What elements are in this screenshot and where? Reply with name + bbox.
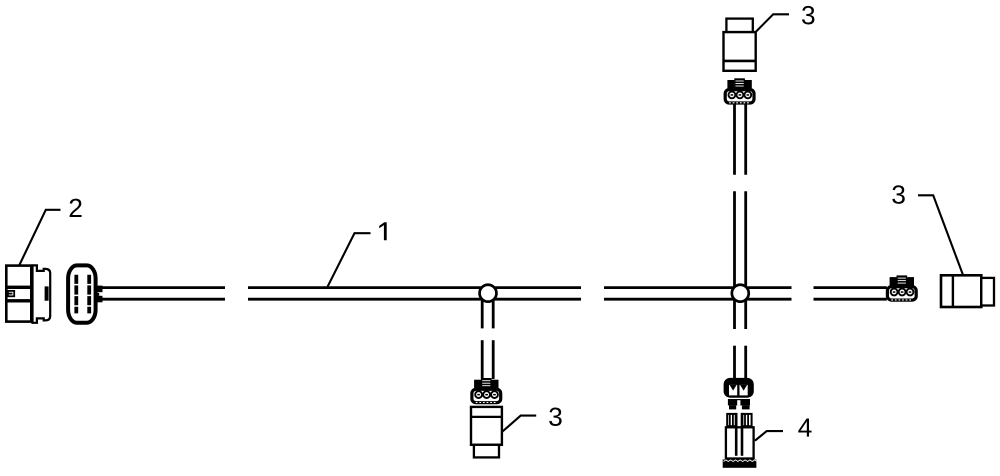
3-pin plug on bottom-middle branch — [472, 378, 501, 403]
wire harness 1: horizontal segment B — [248, 288, 581, 300]
leader line to label 3 (top) — [755, 14, 789, 32]
wire harness 1: horizontal segment D — [814, 288, 887, 300]
mating oval connector on harness end — [68, 265, 102, 322]
label 3 (top) — [802, 6, 814, 25]
leader line to label 1 — [328, 233, 371, 287]
leader line to label 3 (right) — [918, 195, 963, 275]
wire: vertical branch below junction A (upper part) — [482, 293, 493, 328]
connector 3 (top, detached) — [724, 19, 756, 71]
wire: vertical branch above junction B (lower part) — [735, 191, 746, 293]
leader line to label 2 — [20, 210, 61, 265]
label 2 — [70, 199, 82, 217]
connector 4 (bottom-right, detached) — [723, 413, 757, 468]
label 4 — [798, 419, 811, 437]
junction node A — [480, 285, 497, 302]
connector 3 (right, detached) — [941, 275, 994, 307]
label 1 — [379, 222, 387, 240]
junction node B — [732, 285, 749, 302]
leader line to label 3 (bottom) — [502, 416, 536, 432]
label 3 (bottom) — [549, 407, 561, 426]
label 3 (right) — [892, 185, 904, 204]
wire: vertical branch below junction B (upper part) — [735, 293, 746, 329]
wire: vertical branch below junction A (lower part) — [482, 340, 493, 379]
wire: vertical branch below junction B (lower part) — [735, 346, 746, 379]
wire harness 1: horizontal segment C — [604, 288, 792, 300]
3-pin plug on right harness end — [887, 275, 916, 300]
connector 3 (bottom-middle, detached) — [471, 407, 502, 458]
wire harness 1: horizontal segment A — [101, 288, 226, 300]
3-pin plug on top branch — [725, 78, 754, 103]
2-pin black connector on bottom-right branch — [724, 378, 754, 410]
wire: vertical branch above junction B (upper part) — [735, 105, 746, 175]
connector 2: rectangular body — [5, 266, 33, 322]
leader line to label 4 — [755, 431, 783, 441]
connector 2: rear latch part — [33, 265, 51, 322]
